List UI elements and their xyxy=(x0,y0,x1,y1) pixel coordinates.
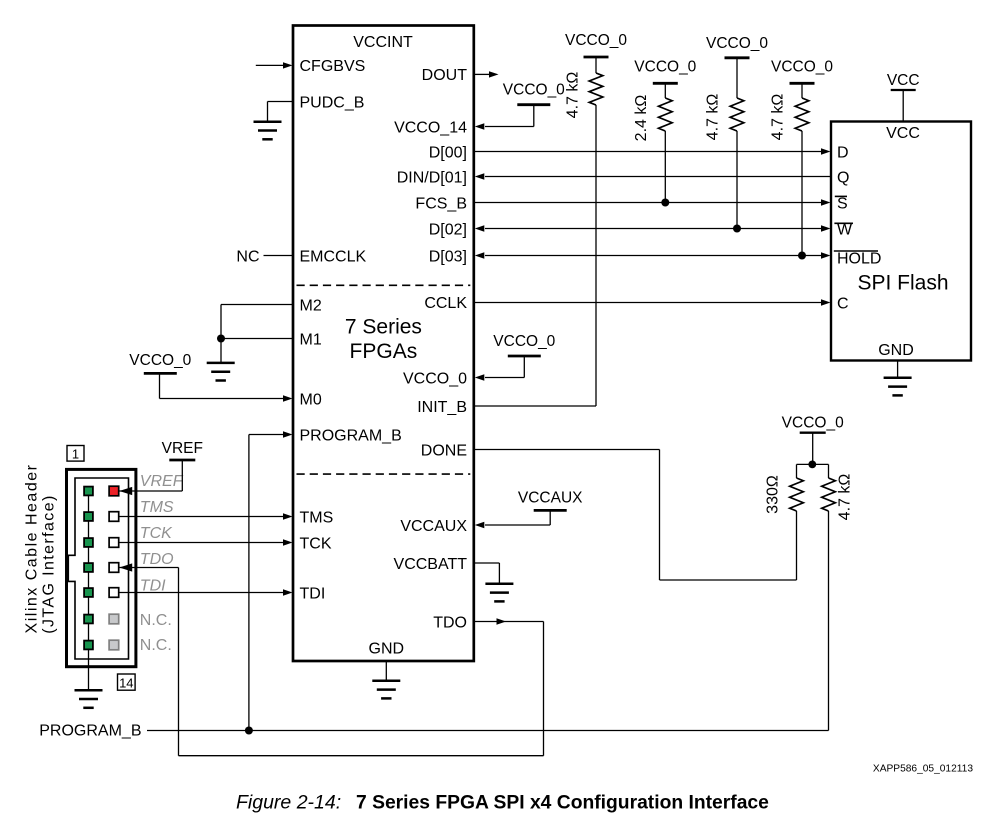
svg-text:VCCO_0: VCCO_0 xyxy=(634,58,696,75)
svg-text:N.C.: N.C. xyxy=(140,612,172,629)
svg-text:HOLD: HOLD xyxy=(837,250,881,267)
svg-text:VCCO_0: VCCO_0 xyxy=(503,82,565,99)
svg-text:W: W xyxy=(837,222,853,239)
svg-text:CFGBVS: CFGBVS xyxy=(300,58,366,75)
svg-text:TCK: TCK xyxy=(140,525,173,542)
svg-text:14: 14 xyxy=(119,675,133,690)
svg-text:GND: GND xyxy=(369,640,405,657)
svg-text:VCCO_0: VCCO_0 xyxy=(782,414,844,431)
svg-text:GND: GND xyxy=(878,342,914,359)
svg-text:D[02]: D[02] xyxy=(429,221,467,238)
svg-text:D: D xyxy=(837,144,849,161)
svg-text:EMCCLK: EMCCLK xyxy=(300,248,367,265)
svg-text:DIN/D[01]: DIN/D[01] xyxy=(397,169,467,186)
svg-text:VCC: VCC xyxy=(887,72,920,89)
svg-text:M0: M0 xyxy=(300,391,322,408)
svg-text:XAPP586_05_012113: XAPP586_05_012113 xyxy=(873,764,973,775)
svg-text:4.7 kΩ: 4.7 kΩ xyxy=(770,94,787,141)
svg-text:(JTAG Interface): (JTAG Interface) xyxy=(41,494,58,633)
svg-text:CCLK: CCLK xyxy=(424,295,467,312)
svg-text:VCCO_0: VCCO_0 xyxy=(493,333,555,350)
svg-text:N.C.: N.C. xyxy=(140,637,172,654)
svg-text:4.7 kΩ: 4.7 kΩ xyxy=(565,72,582,119)
svg-text:7 Series: 7 Series xyxy=(345,315,422,338)
svg-text:VCCINT: VCCINT xyxy=(353,34,413,51)
svg-text:Xilinx Cable Header: Xilinx Cable Header xyxy=(24,464,41,634)
svg-text:VCCO_0: VCCO_0 xyxy=(706,35,768,52)
svg-text:D[03]: D[03] xyxy=(429,248,467,265)
svg-text:VCCBATT: VCCBATT xyxy=(394,556,468,573)
svg-text:M1: M1 xyxy=(300,331,322,348)
svg-text:M2: M2 xyxy=(300,297,322,314)
svg-text:VCCO_0: VCCO_0 xyxy=(565,32,627,49)
svg-text:FPGAs: FPGAs xyxy=(350,340,418,363)
svg-text:SPI Flash: SPI Flash xyxy=(857,272,948,295)
svg-text:4.7 kΩ: 4.7 kΩ xyxy=(705,94,722,141)
svg-text:330Ω: 330Ω xyxy=(765,475,782,514)
svg-text:TDO: TDO xyxy=(140,551,174,568)
svg-text:VCCO_14: VCCO_14 xyxy=(394,119,467,136)
svg-text:VCC: VCC xyxy=(886,125,920,142)
svg-text:7 Series FPGA SPI x4 Configura: 7 Series FPGA SPI x4 Configuration Inter… xyxy=(356,792,769,813)
svg-text:VCCO_0: VCCO_0 xyxy=(129,352,191,369)
svg-text:VCCAUX: VCCAUX xyxy=(518,489,583,506)
svg-text:INIT_B: INIT_B xyxy=(417,399,467,416)
svg-text:TCK: TCK xyxy=(300,535,332,552)
svg-text:VREF: VREF xyxy=(162,440,203,457)
svg-text:4.7 kΩ: 4.7 kΩ xyxy=(837,474,854,521)
svg-text:C: C xyxy=(837,295,849,312)
svg-text:FCS_B: FCS_B xyxy=(415,195,467,212)
svg-text:DONE: DONE xyxy=(421,442,467,459)
svg-text:DOUT: DOUT xyxy=(422,67,468,84)
svg-text:Figure 2-14:: Figure 2-14: xyxy=(236,791,341,813)
svg-text:TMS: TMS xyxy=(140,499,174,516)
svg-text:S: S xyxy=(837,195,848,212)
svg-text:TDO: TDO xyxy=(433,614,467,631)
svg-text:PUDC_B: PUDC_B xyxy=(300,94,365,111)
svg-text:1: 1 xyxy=(72,446,79,461)
svg-text:Q: Q xyxy=(837,169,849,186)
svg-text:VCCO_0: VCCO_0 xyxy=(771,58,833,75)
svg-text:TDI: TDI xyxy=(300,585,326,602)
svg-text:TMS: TMS xyxy=(300,509,334,526)
svg-text:NC: NC xyxy=(236,248,259,265)
svg-text:D[00]: D[00] xyxy=(429,144,467,161)
svg-text:VREF: VREF xyxy=(140,473,184,490)
svg-text:VCCO_0: VCCO_0 xyxy=(403,370,467,387)
svg-text:VCCAUX: VCCAUX xyxy=(400,518,467,535)
svg-text:PROGRAM_B: PROGRAM_B xyxy=(39,722,141,739)
svg-text:PROGRAM_B: PROGRAM_B xyxy=(300,427,402,444)
svg-text:2.4 kΩ: 2.4 kΩ xyxy=(633,95,650,142)
